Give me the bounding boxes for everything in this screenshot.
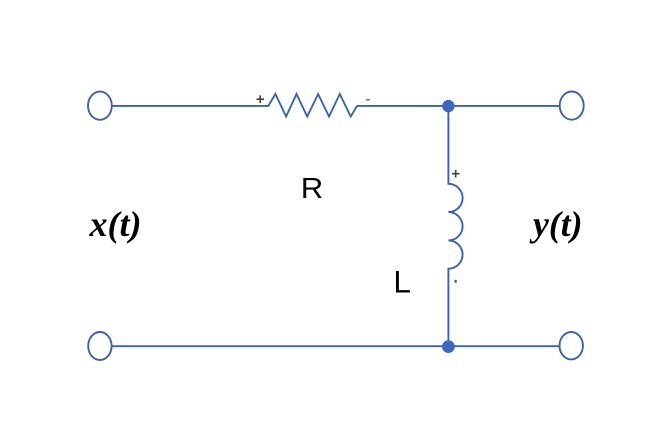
svg-text:x(t): x(t) [89,204,142,244]
svg-text:L: L [393,264,411,300]
svg-text:y(t): y(t) [529,204,582,244]
svg-text:R: R [301,173,324,205]
